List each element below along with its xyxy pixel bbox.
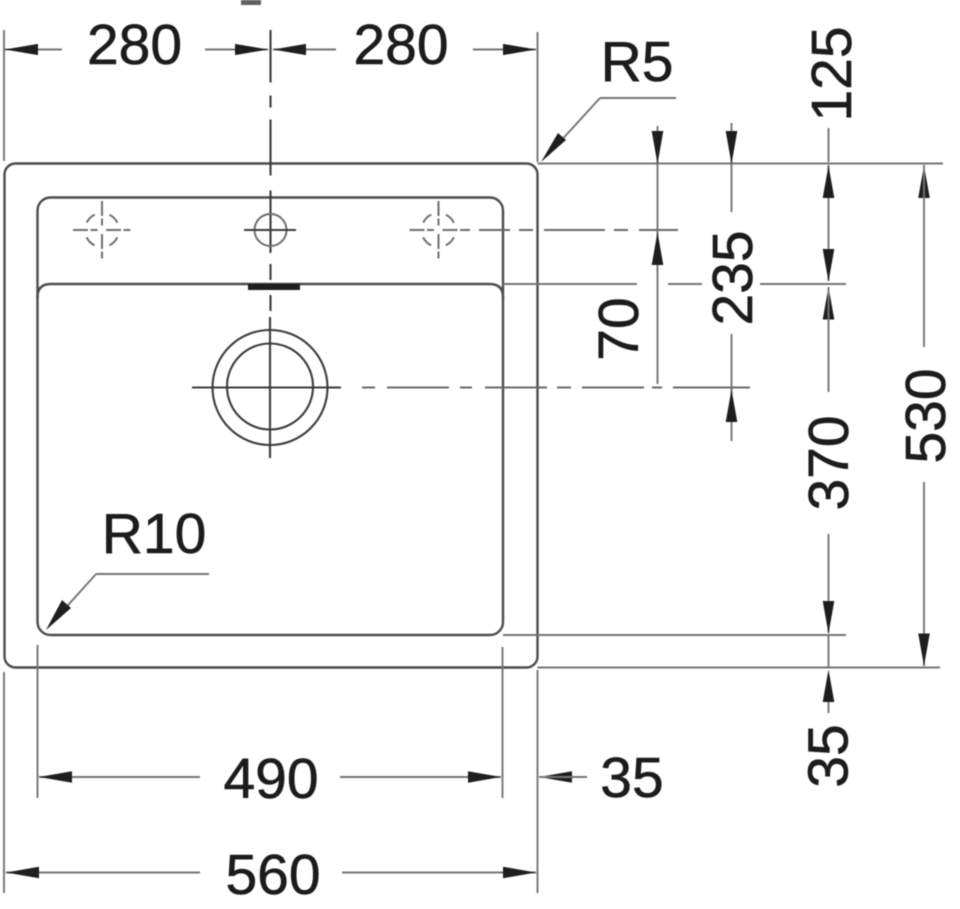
dim 35 right line C crossing — [828, 635, 830, 667]
dim 560 left dim line — [6, 872, 200, 874]
dim 280 left dim line — [5, 49, 62, 51]
svg-text:490: 490 — [223, 747, 318, 811]
R5 leader underline — [600, 97, 676, 99]
drain outer circle — [213, 330, 328, 445]
svg-text:560: 560 — [225, 843, 320, 907]
dim 280 mid-left dim line — [205, 49, 268, 51]
dim 125 dim line — [828, 165, 830, 281]
dim 235 line B lower — [731, 334, 733, 441]
dim 70 line A — [657, 126, 659, 384]
dim 125 top arrow — [823, 166, 835, 199]
svg-text:280: 280 — [87, 13, 182, 77]
dim 490 left dim line — [39, 776, 200, 778]
dim 490 left arrow — [39, 771, 72, 783]
dim 280 right dim line — [473, 49, 536, 51]
dim 125 bottom arrow — [823, 249, 835, 282]
dim 530 line D upper — [923, 165, 925, 347]
dim 530 line D lower — [923, 482, 925, 666]
dim 280 mid-left arrow — [235, 44, 268, 55]
R5 leader line — [547, 98, 600, 156]
dim 125 line C upper tail — [828, 128, 830, 162]
drain crosshair horizontal — [192, 386, 341, 388]
dim 370 line C lower — [828, 534, 830, 633]
center tap hole U1 — [255, 214, 287, 246]
svg-text:35: 35 — [600, 746, 663, 810]
drain inner circle — [227, 344, 313, 430]
dim 490 left extension line — [37, 645, 39, 798]
dim 280 left extension line — [3, 30, 5, 161]
left optional tap hole — [73, 201, 131, 259]
dim 530 top arrow — [918, 166, 930, 199]
vertical center line — [269, 30, 271, 311]
dim 35 bottom tail — [539, 776, 587, 778]
dim 490 right arrow — [468, 771, 501, 783]
overflow slot bar — [248, 284, 300, 290]
dim 235 bottom arrow — [726, 390, 738, 423]
bowl top edge extension segments — [503, 283, 637, 285]
svg-text:35: 35 — [797, 724, 861, 787]
drain center line extension right — [362, 387, 752, 389]
dim 490 right extension line — [502, 647, 504, 798]
R10 leader underline — [96, 573, 209, 575]
outer bottom edge extension — [538, 667, 941, 669]
dim 560 right extension line — [537, 670, 539, 893]
dim 530 bottom arrow — [918, 634, 930, 667]
bowl top edge — [38, 284, 504, 299]
dim 280 right arrow — [503, 44, 536, 55]
dim 70 top arrow — [652, 131, 664, 164]
svg-text:125: 125 — [800, 26, 864, 121]
center tap hole crosshair — [244, 229, 296, 231]
dim 280 mid-right dim line — [273, 49, 336, 51]
tap hole center line horizontal — [460, 229, 678, 231]
dim 370 bottom arrow — [823, 601, 835, 634]
svg-text:370: 370 — [797, 415, 861, 510]
dim 280 right extension line — [537, 32, 539, 162]
dim 35 right tail — [828, 702, 830, 713]
sink outer outline — [5, 164, 538, 668]
svg-text:530: 530 — [894, 368, 958, 463]
svg-text:70: 70 — [587, 297, 651, 360]
dim 490 right dim line — [340, 776, 501, 778]
R10 leader arrow — [46, 600, 71, 630]
dim 560 left extension line — [3, 672, 5, 893]
dim 235 line B upper — [731, 123, 733, 212]
R5 leader arrow — [541, 133, 566, 162]
sink rim inner outline — [38, 198, 504, 636]
svg-text:R10: R10 — [102, 502, 207, 566]
dim 280 mid-right arrow — [273, 44, 306, 55]
right optional tap hole — [410, 201, 468, 259]
R10 leader line — [52, 574, 96, 623]
svg-text:R5: R5 — [601, 30, 674, 94]
dim 370 top arrow — [823, 287, 835, 320]
stray mark top center — [241, 0, 261, 5]
dim 35 bottom arrow — [539, 771, 572, 783]
dim 560 left arrow — [6, 867, 39, 879]
svg-text:235: 235 — [701, 230, 765, 325]
dim 35 right arrow — [823, 670, 835, 703]
dim 560 right dim line — [342, 872, 536, 874]
drain crosshair vertical — [269, 317, 271, 458]
dim 280 left arrow — [5, 44, 38, 55]
dim 370 line C upper — [828, 287, 830, 392]
svg-text:280: 280 — [353, 13, 448, 77]
bowl bottom edge extension — [503, 634, 846, 636]
dim 235 top arrow — [726, 131, 738, 164]
top edge extension line right — [538, 163, 944, 165]
dim 70 bottom arrow — [652, 232, 664, 265]
dim 560 right arrow — [503, 867, 536, 879]
